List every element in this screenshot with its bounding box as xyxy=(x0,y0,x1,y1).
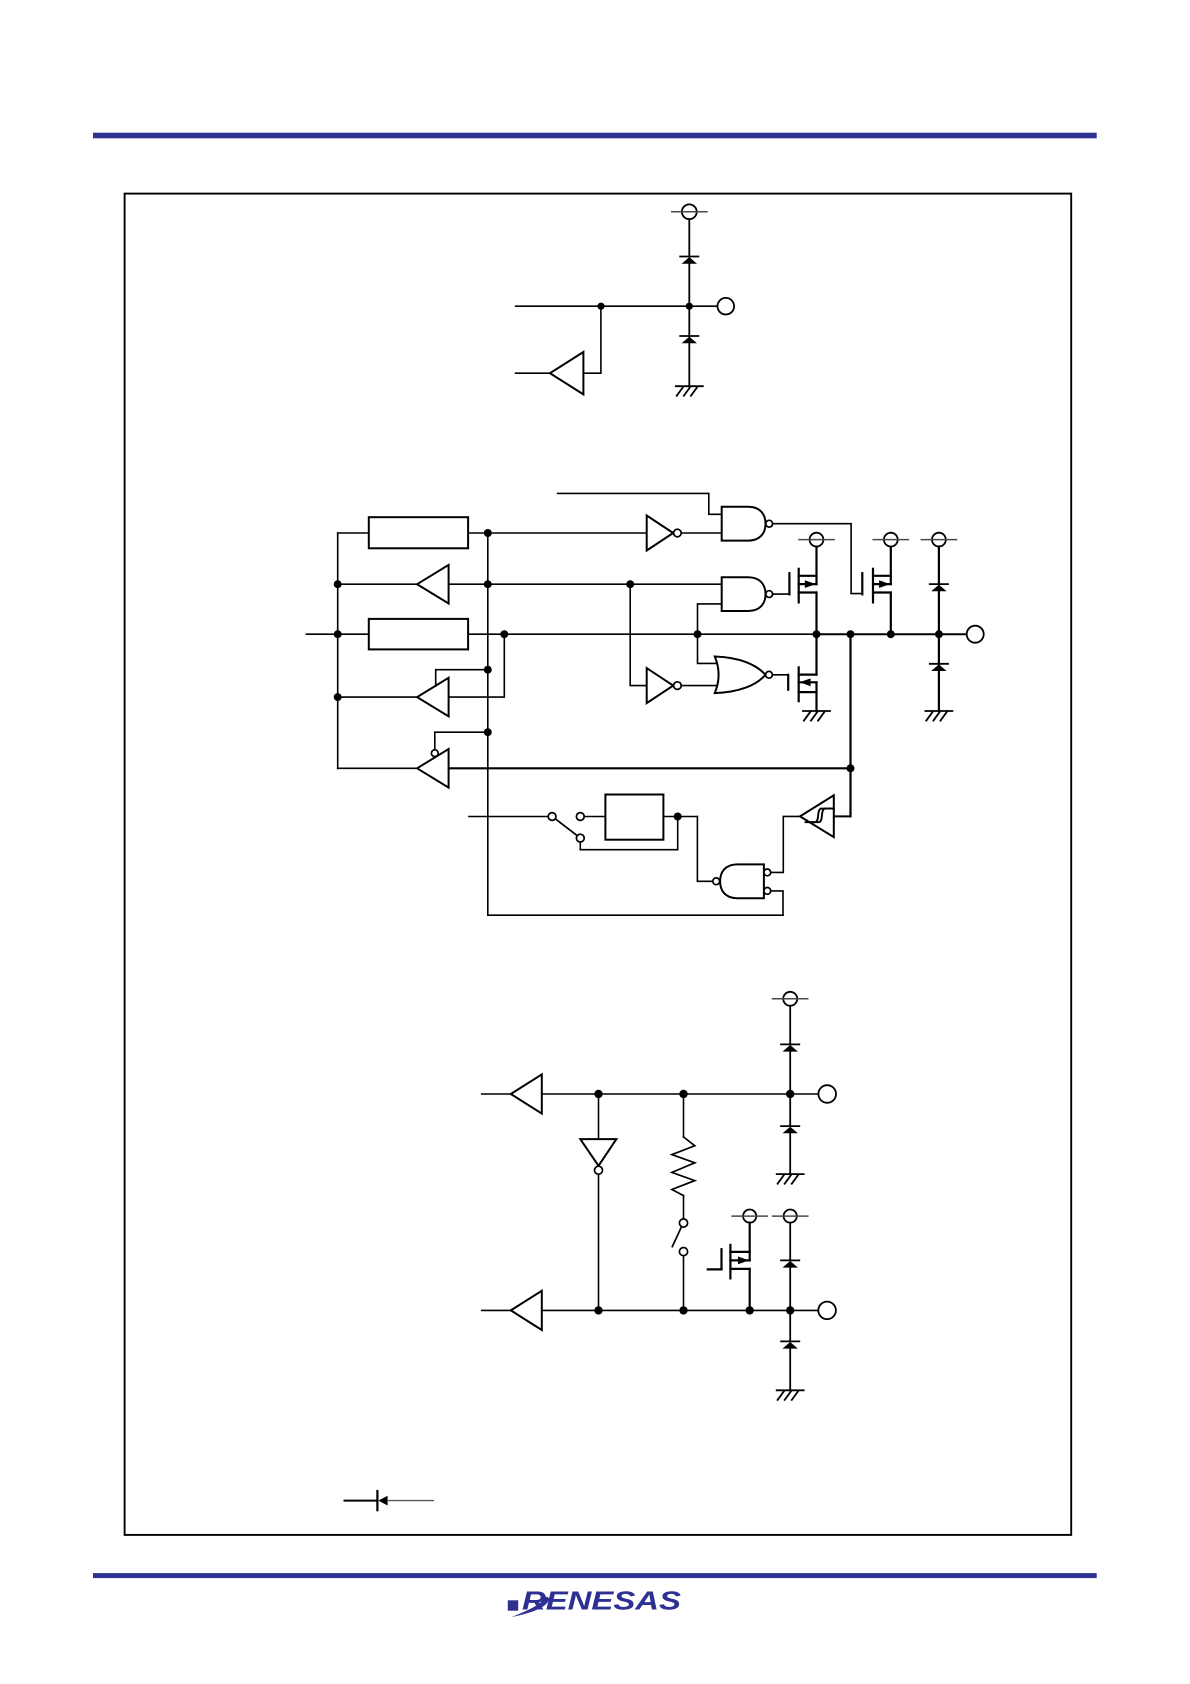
buffer U2 xyxy=(417,565,449,604)
junction feedback / U4 row xyxy=(847,764,855,772)
power pin VCC (top circuit) xyxy=(672,204,707,219)
NAND gate A xyxy=(722,507,773,541)
wire VCC to D1 xyxy=(688,219,690,256)
protection diode D8 xyxy=(781,1341,799,1348)
wire feedback vertical (thick) xyxy=(849,634,851,816)
I/O pad (row2) xyxy=(818,1302,836,1320)
junction row2 / clamp column xyxy=(786,1306,794,1314)
junction main row / gate branch xyxy=(694,630,702,638)
ground (clamp column) xyxy=(925,711,952,721)
wire node to D2 xyxy=(688,306,690,336)
transistor Q3 (NMOS pull-down) xyxy=(788,634,816,711)
protection diode D6 xyxy=(781,1126,799,1133)
input buffer U1 xyxy=(550,352,583,394)
wire input row (top circuit) xyxy=(516,305,718,307)
junction row2 / Q4 drain xyxy=(746,1306,754,1314)
input buffer U7 xyxy=(511,1291,542,1330)
wire pad row 2 xyxy=(542,1309,818,1311)
wire D2 to ground xyxy=(688,343,690,386)
wire D6 to ground xyxy=(789,1133,791,1174)
inverter V2 xyxy=(647,668,682,703)
wire NAND B output to PMOS Q1 gate xyxy=(773,593,790,595)
transistor Q4 (PMOS) xyxy=(708,1223,750,1311)
wire buffer U1 output xyxy=(516,372,550,374)
NOR gate C xyxy=(715,657,773,694)
wire schmitt output to NAND D input xyxy=(771,816,800,872)
wire enable stub to NAND A top input xyxy=(558,493,722,514)
block box B2 xyxy=(369,619,468,650)
protection diode D7 xyxy=(781,1260,799,1267)
input buffer U6 xyxy=(511,1074,542,1113)
junction row2 / inverter V2 branch xyxy=(626,580,634,588)
switch arm xyxy=(555,819,577,836)
wire bus2 (inner vertical) xyxy=(487,533,489,915)
wire D8 to ground xyxy=(789,1349,791,1391)
switch SW2 arm xyxy=(672,1227,681,1246)
wire branch to buffer U3 input xyxy=(449,634,505,697)
wire NAND A output to PMOS Q2 gate xyxy=(773,524,863,594)
wire row1 to resistor R1 xyxy=(683,1094,685,1137)
wire branch to inverter V2 xyxy=(630,584,647,685)
junction row1 / clamp column xyxy=(786,1090,794,1098)
junction bus2 / row1 xyxy=(484,529,492,537)
transistor Q2 (PMOS pull-up 2) xyxy=(862,547,891,635)
wire node to D8 xyxy=(789,1310,791,1341)
wire row1 to inverter V3 xyxy=(598,1094,600,1139)
wire buffer U1 input from node xyxy=(583,306,601,373)
wire D5 to node xyxy=(789,1052,791,1094)
schmitt trigger U5 xyxy=(800,795,834,837)
wire box B1 to inverter V1 xyxy=(468,532,647,534)
I/O pad (row1) xyxy=(818,1085,836,1103)
junction main row / buffer U3 branch xyxy=(500,630,508,638)
wire D3 to node xyxy=(938,591,940,634)
switch SW2 upper contact xyxy=(679,1219,687,1227)
wire U4 output to bus1 xyxy=(338,767,417,769)
switch upper contact xyxy=(576,813,584,821)
junction row2 / V3 column xyxy=(594,1306,602,1314)
power pin VCC (Q2 source) xyxy=(873,533,908,547)
junction row1 / inverter V3 xyxy=(594,1090,602,1098)
switch common contact xyxy=(548,813,556,821)
U4 enable inverting bubble xyxy=(431,750,438,757)
wire VCC to D7 xyxy=(789,1223,791,1261)
three-state buffer U4 xyxy=(417,749,449,788)
Renesas logo xyxy=(508,1585,682,1617)
protection diode D1 xyxy=(680,257,698,264)
wire feedback to schmitt input xyxy=(834,815,851,817)
junction bus1 / row2 xyxy=(334,580,342,588)
NAND gate B xyxy=(722,577,773,611)
wire bus1 to box B1 xyxy=(338,532,369,534)
junction bus2 / U3 enable xyxy=(484,666,492,674)
switch SW2 lower contact xyxy=(679,1248,687,1256)
I/O pad (middle circuit) xyxy=(967,626,984,643)
wire resistor to switch SW2 xyxy=(683,1196,685,1219)
power pin VCC (Q4 source) xyxy=(732,1210,767,1223)
protection diode D4 xyxy=(930,664,948,671)
I/O pad (top circuit) xyxy=(718,298,735,315)
wire D1 to pad node xyxy=(688,264,690,307)
wire bypass path xyxy=(580,817,677,850)
footer rule xyxy=(93,1573,1097,1578)
ground (row1 clamp) xyxy=(777,1174,804,1184)
ground (Q3 source) xyxy=(803,711,830,721)
wire B3 node to NAND D output xyxy=(697,817,712,882)
wire gate branch to NAND B lower input xyxy=(698,604,722,664)
wire VCC to D5 xyxy=(789,1006,791,1045)
wire node to D6 xyxy=(789,1094,791,1126)
wire V3 output to row2 xyxy=(598,1174,600,1310)
wire NAND D lower input from bus2 xyxy=(771,891,783,915)
wire NOR output to NMOS Q3 gate xyxy=(772,674,788,676)
wire U2 to NAND B top input xyxy=(449,583,722,585)
wire box B3 output xyxy=(663,816,697,818)
header rule xyxy=(93,133,1097,139)
legend diode symbol xyxy=(345,1491,434,1510)
switch lower contact xyxy=(576,834,584,842)
junction row1 / resistor xyxy=(679,1090,687,1098)
wire bus2 bottom run xyxy=(488,914,783,916)
transistor Q1 (PMOS pull-up) xyxy=(789,547,816,635)
inverter V1 xyxy=(647,516,682,551)
wire U7 output xyxy=(482,1309,511,1311)
protection diode D5 xyxy=(781,1044,799,1051)
wire VCC to D3 xyxy=(938,547,940,585)
ground (row2 clamp) xyxy=(777,1390,804,1400)
power pin VCC (row1 clamp) xyxy=(773,992,808,1006)
junction Q2 drain node xyxy=(887,630,895,638)
node junction (buffer branch) xyxy=(597,303,604,310)
wire U3 enable xyxy=(436,670,488,687)
wire D4 to ground xyxy=(938,671,940,711)
svg-text:RENESAS: RENESAS xyxy=(522,1585,682,1615)
wire box B2 to output node xyxy=(468,633,816,635)
junction bus2 / U4 enable xyxy=(484,728,492,736)
ground (top circuit) xyxy=(676,386,703,396)
junction bus2 / row2 xyxy=(484,580,492,588)
junction clamp node xyxy=(935,630,943,638)
wire bus1 (left vertical) xyxy=(337,533,339,768)
power pin VCC (Q1 source) xyxy=(799,533,834,547)
junction Q1/Q3 drain node xyxy=(813,630,821,638)
schematic frame xyxy=(125,194,1072,1535)
wire SW2 to row2 xyxy=(683,1256,685,1311)
node junction (clamp column) xyxy=(686,303,693,310)
wire feedback to buffer U4 input (thick) xyxy=(449,767,851,769)
block box B3 (delay) xyxy=(605,795,663,840)
block box B1 xyxy=(369,517,468,548)
junction B3 output / bypass xyxy=(674,813,682,821)
wire V1 to NAND A xyxy=(681,532,722,534)
wire U3 output to bus1 xyxy=(338,696,417,698)
junction feedback branch xyxy=(847,630,855,638)
inverter V3 (down-pointing) xyxy=(580,1139,616,1174)
junction bus1 / row4 xyxy=(334,693,342,701)
three-state buffer U3 xyxy=(417,678,449,717)
power pin VCC (row2 clamp) xyxy=(773,1210,808,1223)
wire U6 output xyxy=(482,1093,511,1095)
wire input to box B2 xyxy=(306,633,368,635)
protection diode D3 xyxy=(930,584,948,591)
wire D7 to node xyxy=(789,1268,791,1311)
wire bus1 to buffer U2 xyxy=(338,583,417,585)
wire pad row 1 xyxy=(542,1093,819,1095)
junction bus1 / main row xyxy=(334,630,342,638)
wire node to D4 xyxy=(938,634,940,664)
NAND gate D (mirrored, inverted inputs) xyxy=(713,864,771,898)
power pin VCC (clamp column) xyxy=(921,533,956,547)
protection diode D2 xyxy=(680,336,698,343)
wire switch to box B3 xyxy=(584,816,605,818)
wire internal signal to switch xyxy=(469,816,548,818)
wire V2 to NOR input xyxy=(681,685,717,687)
resistor R1 (pull-up/down) xyxy=(672,1137,695,1196)
wire U4 enable xyxy=(435,732,488,750)
junction row2 / switch column xyxy=(679,1306,687,1314)
wire output node row (thick) xyxy=(817,633,968,635)
